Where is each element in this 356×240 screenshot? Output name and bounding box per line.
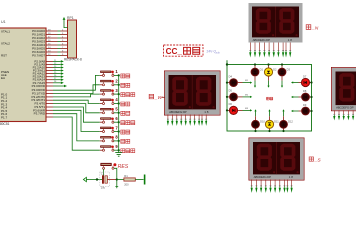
label button 3 name: [121, 93, 135, 97]
microcontroller U1 80C51: [0, 28, 46, 122]
pin 6 of display W: [189, 115, 191, 126]
node D7 right junction: [310, 81, 312, 83]
svg-text:200: 200: [124, 182, 129, 186]
label North: [306, 25, 319, 32]
wire net stub above square: [226, 60, 228, 64]
resistor R2: [117, 174, 144, 186]
node cap-resistor junction: [116, 178, 118, 180]
wire RST node: [90, 179, 102, 181]
svg-text:D8: D8: [303, 89, 307, 93]
terminal RST left: [83, 177, 89, 181]
wire P3 pin 9 to button 9: [46, 117, 100, 150]
pin 2 of display E: [338, 110, 340, 120]
pin 4 of display S: [265, 180, 267, 193]
pin 9 of display W: [201, 115, 203, 126]
LED D5: [227, 93, 252, 101]
svg-text:RES: RES: [118, 164, 129, 170]
pin 7 of display S: [279, 180, 281, 193]
label button 2 name: [121, 83, 130, 87]
svg-text:P0.7/AD7: P0.7/AD7: [32, 54, 45, 58]
LED D12: [280, 109, 288, 131]
pin 7 of display W: [194, 115, 196, 126]
wire P0.5 to RP1: [46, 47, 68, 49]
pin 10 of display W: [205, 115, 207, 126]
MCU right P0 pin names: [32, 29, 45, 58]
svg-text:D11: D11: [274, 120, 279, 124]
svg-text:_W: _W: [154, 95, 163, 101]
wire RES button to RST net: [104, 168, 117, 186]
wire P0.3 to RP1: [46, 40, 68, 42]
svg-text:EA: EA: [1, 76, 5, 80]
svg-text:D6: D6: [229, 102, 233, 106]
button K9: [100, 145, 120, 151]
wire P2.7 terminal: [46, 81, 64, 84]
button K3: [100, 89, 120, 95]
LED D11: [265, 109, 273, 131]
svg-text:ABCDEFG DP: ABCDEFG DP: [336, 106, 354, 110]
wire P2.1 terminal: [46, 63, 64, 66]
node D6 left junction: [226, 109, 228, 111]
wire P0.4 to RP1: [46, 43, 68, 45]
7-segment display E: [331, 67, 356, 110]
svg-text:ABCDEFG DP: ABCDEFG DP: [254, 175, 272, 179]
svg-text:_N: _N: [311, 26, 319, 32]
svg-text:D12: D12: [288, 120, 293, 124]
wire button bus: [118, 75, 120, 150]
label button 6 name: [121, 121, 135, 125]
pin 2 of display N: [254, 43, 256, 58]
LED D3: [278, 65, 286, 88]
node square top-left junction: [226, 63, 228, 65]
button K4: [100, 99, 120, 105]
pin 4 of display N: [263, 43, 265, 58]
terminal power bar right: [144, 175, 146, 185]
svg-text:1 8: 1 8: [288, 38, 293, 42]
node D2 top junction: [267, 63, 269, 65]
wire P2.6 terminal: [46, 78, 64, 81]
wire P2.2 terminal: [46, 66, 64, 69]
7-segment display N: [249, 3, 303, 43]
pin 5 of display W: [185, 115, 187, 126]
pin 8 of display S: [283, 180, 285, 193]
pin 3 of display W: [176, 115, 178, 126]
wire P2.4 terminal: [46, 72, 64, 75]
label center crossing: [266, 97, 272, 100]
7-segment display S: [249, 138, 304, 180]
node D4 left junction: [226, 82, 228, 84]
wire P2.5 terminal: [46, 75, 64, 78]
svg-text:RP1: RP1: [67, 16, 74, 20]
node D10 bottom junction: [254, 130, 256, 132]
node RST junction: [96, 178, 98, 180]
svg-text:D3: D3: [287, 68, 291, 72]
wire P0.2 to RP1: [46, 36, 68, 38]
wire P3 pin 4 to button 4: [46, 100, 100, 103]
power symbol VCC at RP1: [63, 17, 68, 28]
button RES reset: [101, 163, 117, 169]
label button 9 name: [121, 149, 135, 153]
7-segment display W: [164, 71, 220, 115]
svg-text:C1: C1: [101, 171, 105, 175]
pin 5 of display N: [268, 43, 270, 58]
LED D6: [227, 106, 252, 114]
button K7: [100, 127, 120, 133]
resistor pack RP1 RESPACK-8: [68, 20, 77, 58]
svg-text:D2: D2: [273, 68, 277, 72]
ground at button bus: [115, 150, 122, 156]
pin 6 of display S: [274, 180, 276, 193]
button K2: [100, 80, 120, 86]
pin 3 of display E: [343, 110, 345, 120]
pin 1 of display E: [333, 110, 335, 120]
svg-text:XTAL2: XTAL2: [1, 42, 10, 46]
LED D10: [252, 109, 260, 131]
pin 5 of display E: [352, 110, 354, 120]
button K8: [100, 136, 120, 142]
label button 4 name: [121, 102, 130, 106]
LED D8: [291, 93, 312, 101]
pin 9 of display S: [286, 180, 288, 193]
LED D7: [291, 78, 312, 86]
terminal down at reset: [115, 187, 118, 189]
pin 3 of display N: [259, 43, 261, 58]
svg-text:P1.7: P1.7: [1, 116, 8, 120]
svg-text:_S: _S: [314, 157, 322, 163]
LED D9: [291, 107, 312, 115]
wire P3 pin 2 to button 2: [46, 85, 100, 94]
LED D2: [264, 65, 272, 88]
svg-text:D10: D10: [260, 120, 265, 124]
wire P3.0 terminal: [46, 85, 67, 88]
svg-text:D5: D5: [229, 89, 233, 93]
wire P3 pin 7 to button 7: [46, 110, 100, 131]
pin 5 of display S: [269, 180, 271, 193]
node D5 left junction: [226, 96, 228, 98]
pin 4 of display W: [180, 115, 182, 126]
node D9 right junction: [310, 110, 312, 112]
capacitor C3: [100, 171, 117, 189]
label West: [149, 94, 162, 101]
svg-text:U1: U1: [1, 20, 6, 24]
wire P3 pin 1 to button 1: [46, 75, 100, 90]
pin 3 of display S: [260, 180, 262, 193]
pin 1 of display W: [167, 115, 169, 126]
label button 7 name: [121, 130, 130, 134]
svg-text:P3.7/RD: P3.7/RD: [34, 112, 46, 116]
pin 8 of display N: [282, 43, 284, 58]
svg-text:RST: RST: [1, 54, 7, 58]
button K6: [100, 117, 120, 123]
svg-text:XTAL1: XTAL1: [1, 30, 10, 34]
svg-text:D1: D1: [260, 68, 264, 72]
wire P3 pin 5 to button 5: [46, 104, 100, 113]
svg-text:RESPACK-8: RESPACK-8: [64, 57, 82, 61]
pin 10 of display N: [289, 43, 291, 58]
node D3 top junction: [281, 63, 283, 65]
wire P0.7 to RP1: [46, 54, 68, 56]
node D1 top junction: [254, 63, 256, 65]
svg-text:D9: D9: [303, 103, 307, 107]
label South: [309, 157, 321, 163]
svg-text:1 8: 1 8: [204, 110, 209, 114]
svg-text:1 8: 1 8: [289, 175, 294, 179]
svg-text:D7: D7: [303, 74, 307, 78]
pin 1 of display N: [249, 43, 251, 58]
svg-text:R1: R1: [124, 174, 128, 178]
MCU right P2 pin names: [32, 59, 46, 88]
node D8 right junction: [310, 96, 312, 98]
LED D4: [227, 79, 252, 87]
button K1: [100, 71, 120, 77]
pin 2 of display S: [255, 180, 257, 193]
pin 6 of display N: [273, 43, 275, 58]
wire P3 pin 6 to button 6: [46, 107, 100, 122]
wire P3 pin 3 to button 3: [46, 94, 100, 97]
svg-text:CC_: CC_: [166, 47, 183, 56]
svg-text:ABCDEFG DP: ABCDEFG DP: [253, 38, 271, 42]
wire P2.3 terminal: [46, 69, 64, 72]
pin 10 of display S: [291, 180, 293, 193]
label box CC common cathode: [164, 45, 204, 56]
node D11 bottom junction: [268, 130, 270, 132]
wire P0.0 to RP1: [46, 29, 68, 31]
pin 9 of display N: [285, 43, 287, 58]
wire P0.6 to RP1: [46, 50, 68, 52]
wire stub West display: [162, 96, 165, 98]
pin 4 of display E: [347, 110, 349, 120]
pin 1 of display S: [251, 180, 253, 193]
pin 2 of display W: [171, 115, 173, 126]
svg-text:D4: D4: [229, 74, 233, 78]
pin 7 of display N: [277, 43, 279, 58]
svg-text:80C51: 80C51: [0, 122, 10, 126]
wire P2.0 terminal: [46, 60, 64, 63]
label button 8 name: [121, 139, 130, 143]
MCU right P3 pin names: [31, 88, 45, 116]
wire intersection square: [227, 65, 312, 132]
LED D1: [251, 65, 259, 88]
node D12 bottom junction: [282, 130, 284, 132]
pin 8 of display W: [198, 115, 200, 126]
label button 5 name: [121, 111, 130, 115]
wire P3 pin 8 to button 8: [46, 114, 100, 141]
wire P0.1 to RP1: [46, 33, 68, 35]
svg-text:ABCDEFG DP: ABCDEFG DP: [169, 110, 187, 114]
MCU left pin names: [1, 30, 10, 120]
button K5: [100, 108, 120, 114]
label button 1 name: [121, 74, 130, 78]
svg-text:10u: 10u: [101, 186, 106, 190]
